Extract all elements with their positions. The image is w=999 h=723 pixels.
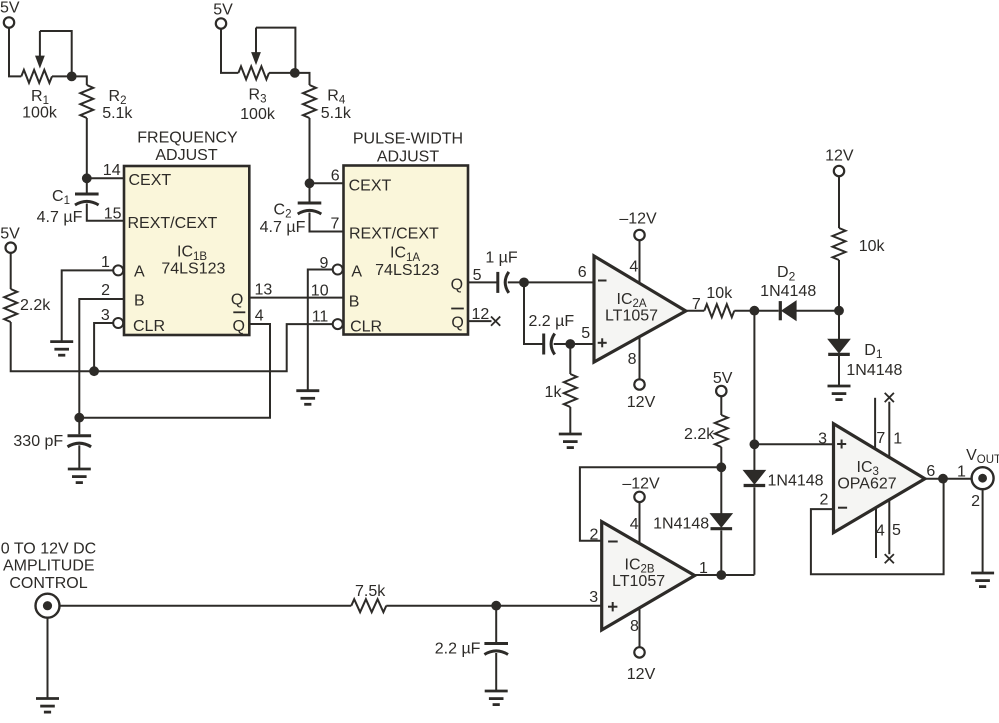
wire pin1 A to ground bbox=[62, 270, 114, 341]
pin 5 stub with no-connect (IC3 bottom) bbox=[885, 500, 901, 564]
pin number 3 (IC1B CLR) bbox=[101, 307, 110, 324]
diode D2 1N4148 bbox=[754, 301, 839, 320]
capacitor 1 uF coupling bbox=[498, 272, 524, 293]
svg-text:AMPLITUDE: AMPLITUDE bbox=[3, 558, 95, 575]
wire 330pF to ground bbox=[78, 445, 80, 469]
pin number 1 (IC2B out) bbox=[699, 560, 708, 577]
svg-text:5V: 5V bbox=[213, 2, 233, 19]
wire pin2 B down to 330pF node bbox=[79, 299, 124, 418]
pin 9 A bubble (IC1A) bbox=[333, 265, 343, 275]
value 1N4148 (D1) bbox=[846, 362, 902, 379]
pin number 5 (IC2A +in) bbox=[581, 325, 590, 342]
diode D1 1N4148 bbox=[828, 311, 850, 386]
svg-text:13: 13 bbox=[255, 282, 273, 299]
wire 5V to 2.2k bbox=[720, 396, 722, 415]
pin number 15 bbox=[104, 205, 122, 222]
ground (IC1A pin 9) bbox=[296, 391, 319, 405]
svg-text:2.2 µF: 2.2 µF bbox=[528, 313, 574, 330]
svg-text:2: 2 bbox=[820, 492, 829, 509]
node: output junction bbox=[938, 474, 948, 484]
svg-text:1: 1 bbox=[957, 464, 966, 481]
pin number 13 (IC1B Q) bbox=[255, 282, 273, 299]
wire to IC2A +in bbox=[570, 343, 594, 345]
power terminal 5V (left middle) bbox=[0, 226, 20, 253]
wire connector to ground bbox=[47, 617, 49, 698]
resistor R1 100k potentiometer bbox=[21, 31, 71, 83]
value 1 uF bbox=[485, 250, 518, 267]
ground (IC1B pin 1) bbox=[50, 342, 73, 356]
pin 4 supply (IC2A) bbox=[629, 240, 639, 283]
svg-text:0 TO 12V DC: 0 TO 12V DC bbox=[1, 540, 96, 557]
svg-text:REXT/CEXT: REXT/CEXT bbox=[128, 215, 218, 232]
svg-text:1 µF: 1 µF bbox=[485, 250, 518, 267]
svg-text:12V: 12V bbox=[627, 666, 656, 683]
svg-text:Q: Q bbox=[451, 314, 463, 331]
pin 8 supply (IC2B) bbox=[630, 608, 640, 647]
value 1N4148 (column B diode) bbox=[768, 473, 824, 490]
svg-text:B: B bbox=[134, 292, 145, 309]
svg-text:Q: Q bbox=[233, 318, 245, 335]
svg-text:PULSE-WIDTH: PULSE-WIDTH bbox=[353, 130, 463, 147]
IC U: IC1B 74LS123 monostable (box) bbox=[124, 166, 249, 335]
wire 5V to 2.2k bbox=[10, 253, 12, 289]
wire feedback to IC2B -in bbox=[580, 467, 721, 541]
node: 1uF output junction bbox=[519, 278, 529, 288]
label R4 bbox=[327, 87, 346, 106]
svg-text:CLR: CLR bbox=[133, 318, 165, 335]
wire to IC2A inverting input bbox=[524, 281, 594, 283]
svg-text:330 pF: 330 pF bbox=[13, 433, 63, 450]
svg-text:12V: 12V bbox=[825, 148, 854, 165]
power terminal 12V (IC2A) bbox=[627, 379, 656, 411]
value 10k (series) bbox=[706, 285, 733, 302]
svg-text:74LS123: 74LS123 bbox=[375, 262, 439, 279]
power terminal 12V (IC2B) bbox=[627, 647, 656, 683]
svg-text:R4: R4 bbox=[327, 87, 346, 106]
node: IC2B output junction bbox=[716, 570, 726, 580]
label VOUT bbox=[966, 447, 999, 466]
pin 4 supply (IC2B) bbox=[630, 502, 640, 543]
svg-text:5.1k: 5.1k bbox=[102, 105, 133, 122]
pin number 6 (IC1A CEXT) bbox=[331, 168, 340, 185]
value 2.2 uF bbox=[528, 313, 574, 330]
svg-text:1N4148: 1N4148 bbox=[846, 362, 902, 379]
svg-text:7: 7 bbox=[330, 216, 339, 233]
svg-text:–12V: –12V bbox=[619, 210, 657, 227]
svg-text:2: 2 bbox=[971, 493, 980, 510]
pin number 14 bbox=[103, 162, 121, 179]
node: 330pF junction bbox=[74, 413, 84, 423]
capacitor C2 4.7uF bbox=[298, 183, 322, 214]
svg-text:ADJUST: ADJUST bbox=[377, 148, 439, 165]
label C2 bbox=[274, 201, 292, 220]
value 1N4148 (column A diode) bbox=[653, 515, 709, 532]
svg-text:1N4148: 1N4148 bbox=[653, 515, 709, 532]
ground (VOUT) bbox=[971, 573, 994, 587]
value 4.7 uF (C1) bbox=[37, 209, 83, 226]
ground (330pF) bbox=[68, 469, 91, 483]
wire pin9 A to ground bbox=[308, 270, 333, 391]
node: CLR rail junction bbox=[89, 366, 99, 376]
ground (D1) bbox=[828, 386, 851, 400]
pin number 6 (IC2A -in) bbox=[578, 264, 587, 281]
resistor 7.5k bbox=[351, 599, 496, 612]
power terminal 5V (IC2B clamp) bbox=[713, 370, 733, 396]
diode 1N4148 (column B) bbox=[744, 444, 766, 575]
pin number 2 (IC1B B) bbox=[101, 282, 110, 299]
wire junction to R2 bbox=[72, 76, 87, 85]
resistor R3 100k potentiometer bbox=[238, 28, 295, 80]
wire to IC2B +in bbox=[496, 605, 602, 607]
connector: VOUT bbox=[972, 467, 994, 489]
power terminal -12V (IC2B) bbox=[622, 476, 660, 502]
value 10k (pull-up) bbox=[859, 238, 886, 255]
svg-text:3: 3 bbox=[101, 307, 110, 324]
value 1N4148 (D2) bbox=[760, 283, 816, 300]
resistor 1k bbox=[564, 344, 577, 434]
wire D2 junction down to IC3 +in node bbox=[753, 311, 755, 445]
svg-text:3: 3 bbox=[589, 589, 598, 606]
wire Qbar (4) to B feedback bbox=[79, 324, 270, 418]
value 330 pF bbox=[13, 433, 63, 450]
svg-text:OPA627: OPA627 bbox=[837, 475, 896, 492]
resistor 10k (series) bbox=[704, 304, 754, 317]
node: D2 anode junction bbox=[750, 306, 760, 316]
svg-text:Q: Q bbox=[451, 277, 463, 294]
pin number 4 (IC1B Qbar) bbox=[255, 307, 264, 324]
capacitor 2.2 uF (IC2A +in) bbox=[544, 334, 571, 355]
power terminal 5V (above R3) bbox=[213, 2, 233, 29]
pin number 3 (IC3 +in) bbox=[818, 430, 827, 447]
svg-text:14: 14 bbox=[103, 162, 121, 179]
pin 1 stub with no-connect (IC3 top) bbox=[885, 393, 903, 457]
value 100k (R1) bbox=[22, 104, 58, 121]
pin 11 CLR bubble (IC1A) bbox=[333, 319, 343, 329]
svg-text:REXT/CEXT: REXT/CEXT bbox=[349, 226, 439, 243]
IC U: IC1A 74LS123 monostable (box) bbox=[344, 166, 469, 336]
svg-text:ADJUST: ADJUST bbox=[155, 147, 217, 164]
svg-text:5: 5 bbox=[581, 325, 590, 342]
svg-text:CLR: CLR bbox=[350, 318, 382, 335]
svg-text:10: 10 bbox=[311, 282, 329, 299]
node: feedback junction bbox=[716, 462, 726, 472]
pin number 6 (IC3 out) bbox=[926, 463, 935, 480]
svg-text:2.2k: 2.2k bbox=[684, 426, 715, 443]
svg-text:4: 4 bbox=[876, 523, 885, 540]
pin number 9 (IC1A A) bbox=[320, 255, 329, 272]
svg-text:2.2k: 2.2k bbox=[20, 297, 51, 314]
pin number 2 (IC2B -in) bbox=[590, 526, 599, 543]
pin number 2 (VOUT ground) bbox=[971, 493, 980, 510]
wire IC2B output bbox=[695, 574, 755, 576]
svg-text:R3: R3 bbox=[249, 86, 267, 105]
wire R2 to pin 14 node bbox=[86, 118, 88, 178]
pin 3 CLR bubble (IC1B) bbox=[113, 318, 123, 328]
node: RC junction bbox=[491, 601, 501, 611]
node: R1 wiper junction bbox=[67, 72, 77, 82]
node: IC3 +in junction bbox=[750, 439, 760, 449]
capacitor 330 pF bbox=[68, 418, 92, 447]
svg-text:6: 6 bbox=[926, 463, 935, 480]
svg-text:D1: D1 bbox=[864, 342, 883, 361]
value 2.2k (clamp) bbox=[684, 426, 715, 443]
label R1 bbox=[31, 88, 49, 107]
pin number 7 (IC2A out) bbox=[692, 296, 701, 313]
label 0 TO 12V DC AMPLITUDE CONTROL bbox=[1, 540, 96, 592]
svg-text:4: 4 bbox=[255, 307, 264, 324]
power terminal 12V (clamp) bbox=[825, 148, 854, 177]
wire IC3 output to VOUT bbox=[925, 478, 971, 480]
wire junction to R4 bbox=[295, 73, 310, 85]
pin number 7 (IC1A REXT) bbox=[330, 216, 339, 233]
label D1 bbox=[864, 342, 883, 361]
svg-text:6: 6 bbox=[578, 264, 587, 281]
wire input to 7.5k bbox=[59, 605, 351, 607]
svg-text:LT1057: LT1057 bbox=[605, 308, 658, 325]
svg-text:4: 4 bbox=[629, 259, 638, 276]
pin number 5 (IC1A Q) bbox=[473, 267, 482, 284]
svg-text:1: 1 bbox=[893, 430, 902, 447]
power terminal 5V (top-left) bbox=[0, 0, 20, 28]
pin number 10 (IC1A B) bbox=[311, 282, 329, 299]
svg-text:C1: C1 bbox=[52, 188, 70, 207]
svg-text:2: 2 bbox=[101, 282, 110, 299]
svg-text:FREQUENCY: FREQUENCY bbox=[137, 129, 238, 146]
value 100k (R3) bbox=[240, 106, 276, 123]
wire pin 6 bbox=[310, 182, 344, 184]
pin number 3 (IC2B +in) bbox=[589, 589, 598, 606]
wire IC3 feedback bbox=[811, 479, 944, 575]
svg-text:VOUT: VOUT bbox=[966, 447, 999, 466]
svg-text:15: 15 bbox=[104, 205, 122, 222]
resistor R4 5.1k bbox=[303, 85, 316, 118]
label R2 bbox=[109, 88, 127, 107]
pin 1 A bubble (IC1B) bbox=[113, 265, 123, 275]
svg-text:2.2 µF: 2.2 µF bbox=[435, 640, 481, 657]
svg-text:1N4148: 1N4148 bbox=[760, 283, 816, 300]
svg-text:–12V: –12V bbox=[622, 476, 660, 493]
connector: amplitude control input bbox=[36, 594, 60, 618]
svg-text:8: 8 bbox=[630, 618, 639, 635]
svg-text:1: 1 bbox=[101, 254, 110, 271]
svg-text:11: 11 bbox=[312, 308, 329, 325]
svg-text:5V: 5V bbox=[713, 370, 733, 387]
wire pin 14 bbox=[87, 177, 124, 179]
wire VOUT to ground bbox=[982, 489, 984, 573]
svg-text:CEXT: CEXT bbox=[129, 172, 172, 189]
node: D1 junction bbox=[834, 306, 844, 316]
capacitor C1 4.7uF bbox=[75, 178, 99, 205]
svg-text:2: 2 bbox=[590, 526, 599, 543]
wire R4 to pin 6 node bbox=[309, 118, 311, 183]
svg-text:4.7 µF: 4.7 µF bbox=[260, 219, 306, 236]
wire 5V to R1 bbox=[9, 28, 21, 77]
power terminal -12V (IC2A) bbox=[619, 210, 657, 240]
wire pin3 CLR to clear rail bbox=[94, 323, 113, 371]
pin number 12 (IC1A Qbar) bbox=[472, 306, 490, 323]
svg-text:4.7 µF: 4.7 µF bbox=[37, 209, 83, 226]
svg-text:CEXT: CEXT bbox=[349, 177, 392, 194]
op-amp IC3 OPA627 bbox=[834, 424, 925, 533]
value 5.1k (R4) bbox=[321, 105, 352, 122]
label PULSE-WIDTH ADJUST bbox=[353, 130, 463, 165]
label C1 bbox=[52, 188, 70, 207]
diode 1N4148 (column A) bbox=[711, 467, 733, 575]
capacitor 2.2 uF (filter) bbox=[484, 606, 508, 691]
value 1k bbox=[545, 384, 563, 401]
ground (1k) bbox=[559, 434, 582, 448]
wire Qbar (12) stub with no-connect bbox=[468, 317, 500, 326]
resistor R2 5.1k bbox=[80, 85, 93, 118]
pin number 1 (IC1B A) bbox=[101, 254, 110, 271]
wire C1 to pin 15 bbox=[87, 204, 124, 221]
svg-text:5V: 5V bbox=[0, 226, 20, 243]
svg-text:A: A bbox=[351, 263, 362, 280]
svg-text:A: A bbox=[134, 264, 145, 281]
wire 5V to R3 bbox=[221, 29, 238, 73]
svg-text:1k: 1k bbox=[545, 384, 563, 401]
pin number 11 (IC1A CLR) bbox=[312, 308, 329, 325]
svg-text:12V: 12V bbox=[627, 394, 656, 411]
value 7.5k bbox=[355, 583, 386, 600]
node: CEXT junction (pin 14) bbox=[82, 173, 92, 183]
wire Q (5) to 1uF bbox=[468, 281, 498, 283]
value 5.1k (R2) bbox=[102, 105, 133, 122]
pin 7 stub (IC3 top) bbox=[875, 398, 885, 449]
svg-text:74LS123: 74LS123 bbox=[161, 260, 225, 277]
label FREQUENCY ADJUST bbox=[137, 129, 238, 164]
wire clear rail bbox=[11, 322, 333, 371]
svg-text:100k: 100k bbox=[240, 106, 276, 123]
ground (2.2uF filter) bbox=[485, 691, 508, 705]
svg-text:7.5k: 7.5k bbox=[355, 583, 386, 600]
svg-text:8: 8 bbox=[628, 351, 637, 368]
value 4.7 uF (C2) bbox=[260, 219, 306, 236]
svg-text:4: 4 bbox=[630, 516, 639, 533]
resistor 2.2k (CLR pull-up) bbox=[4, 289, 17, 322]
node: R3 wiper junction bbox=[290, 68, 300, 78]
svg-text:10k: 10k bbox=[706, 285, 733, 302]
svg-text:C2: C2 bbox=[274, 201, 292, 220]
pin 8 supply (IC2A) bbox=[628, 337, 640, 379]
pin number 2 (IC3 -in) bbox=[820, 492, 829, 509]
svg-text:7: 7 bbox=[876, 430, 885, 447]
svg-text:100k: 100k bbox=[22, 104, 58, 121]
wire down to 2.2uF bbox=[524, 282, 544, 344]
wire 12V to 10k bbox=[838, 176, 840, 228]
op-amp IC2A LT1057 bbox=[594, 256, 686, 362]
svg-text:5.1k: 5.1k bbox=[321, 105, 352, 122]
label R3 bbox=[249, 86, 267, 105]
resistor 10k (pull-up) bbox=[833, 228, 846, 311]
svg-text:B: B bbox=[349, 293, 360, 310]
ground (input connector) bbox=[36, 699, 59, 713]
svg-text:LT1057: LT1057 bbox=[612, 573, 665, 590]
resistor 2.2k (clamp) bbox=[715, 415, 728, 467]
node: CEXT junction (pin 6) bbox=[305, 178, 315, 188]
wire output to 10k bbox=[686, 310, 705, 312]
svg-text:10k: 10k bbox=[859, 238, 886, 255]
wire Q (13) to IC1A B (10) bbox=[249, 297, 343, 299]
svg-text:6: 6 bbox=[331, 168, 340, 185]
svg-text:5: 5 bbox=[892, 522, 901, 539]
pin number 1 (VOUT) bbox=[957, 464, 966, 481]
wire to IC3 +in bbox=[754, 443, 833, 445]
svg-text:5: 5 bbox=[473, 267, 482, 284]
label D2 bbox=[777, 264, 796, 283]
value 2.2 uF (filter) bbox=[435, 640, 481, 657]
node: +in junction bbox=[565, 339, 575, 349]
wire C2 to pin 7 bbox=[310, 213, 344, 232]
svg-text:1N4148: 1N4148 bbox=[768, 473, 824, 490]
svg-text:D2: D2 bbox=[777, 264, 796, 283]
svg-text:5V: 5V bbox=[0, 0, 20, 16]
value 2.2k bbox=[20, 297, 51, 314]
svg-text:Q: Q bbox=[231, 292, 243, 309]
pin 4 stub (IC3 bottom) bbox=[876, 508, 885, 559]
svg-text:3: 3 bbox=[818, 430, 827, 447]
op-amp IC2B LT1057 bbox=[602, 522, 695, 630]
svg-text:CONTROL: CONTROL bbox=[9, 575, 87, 592]
